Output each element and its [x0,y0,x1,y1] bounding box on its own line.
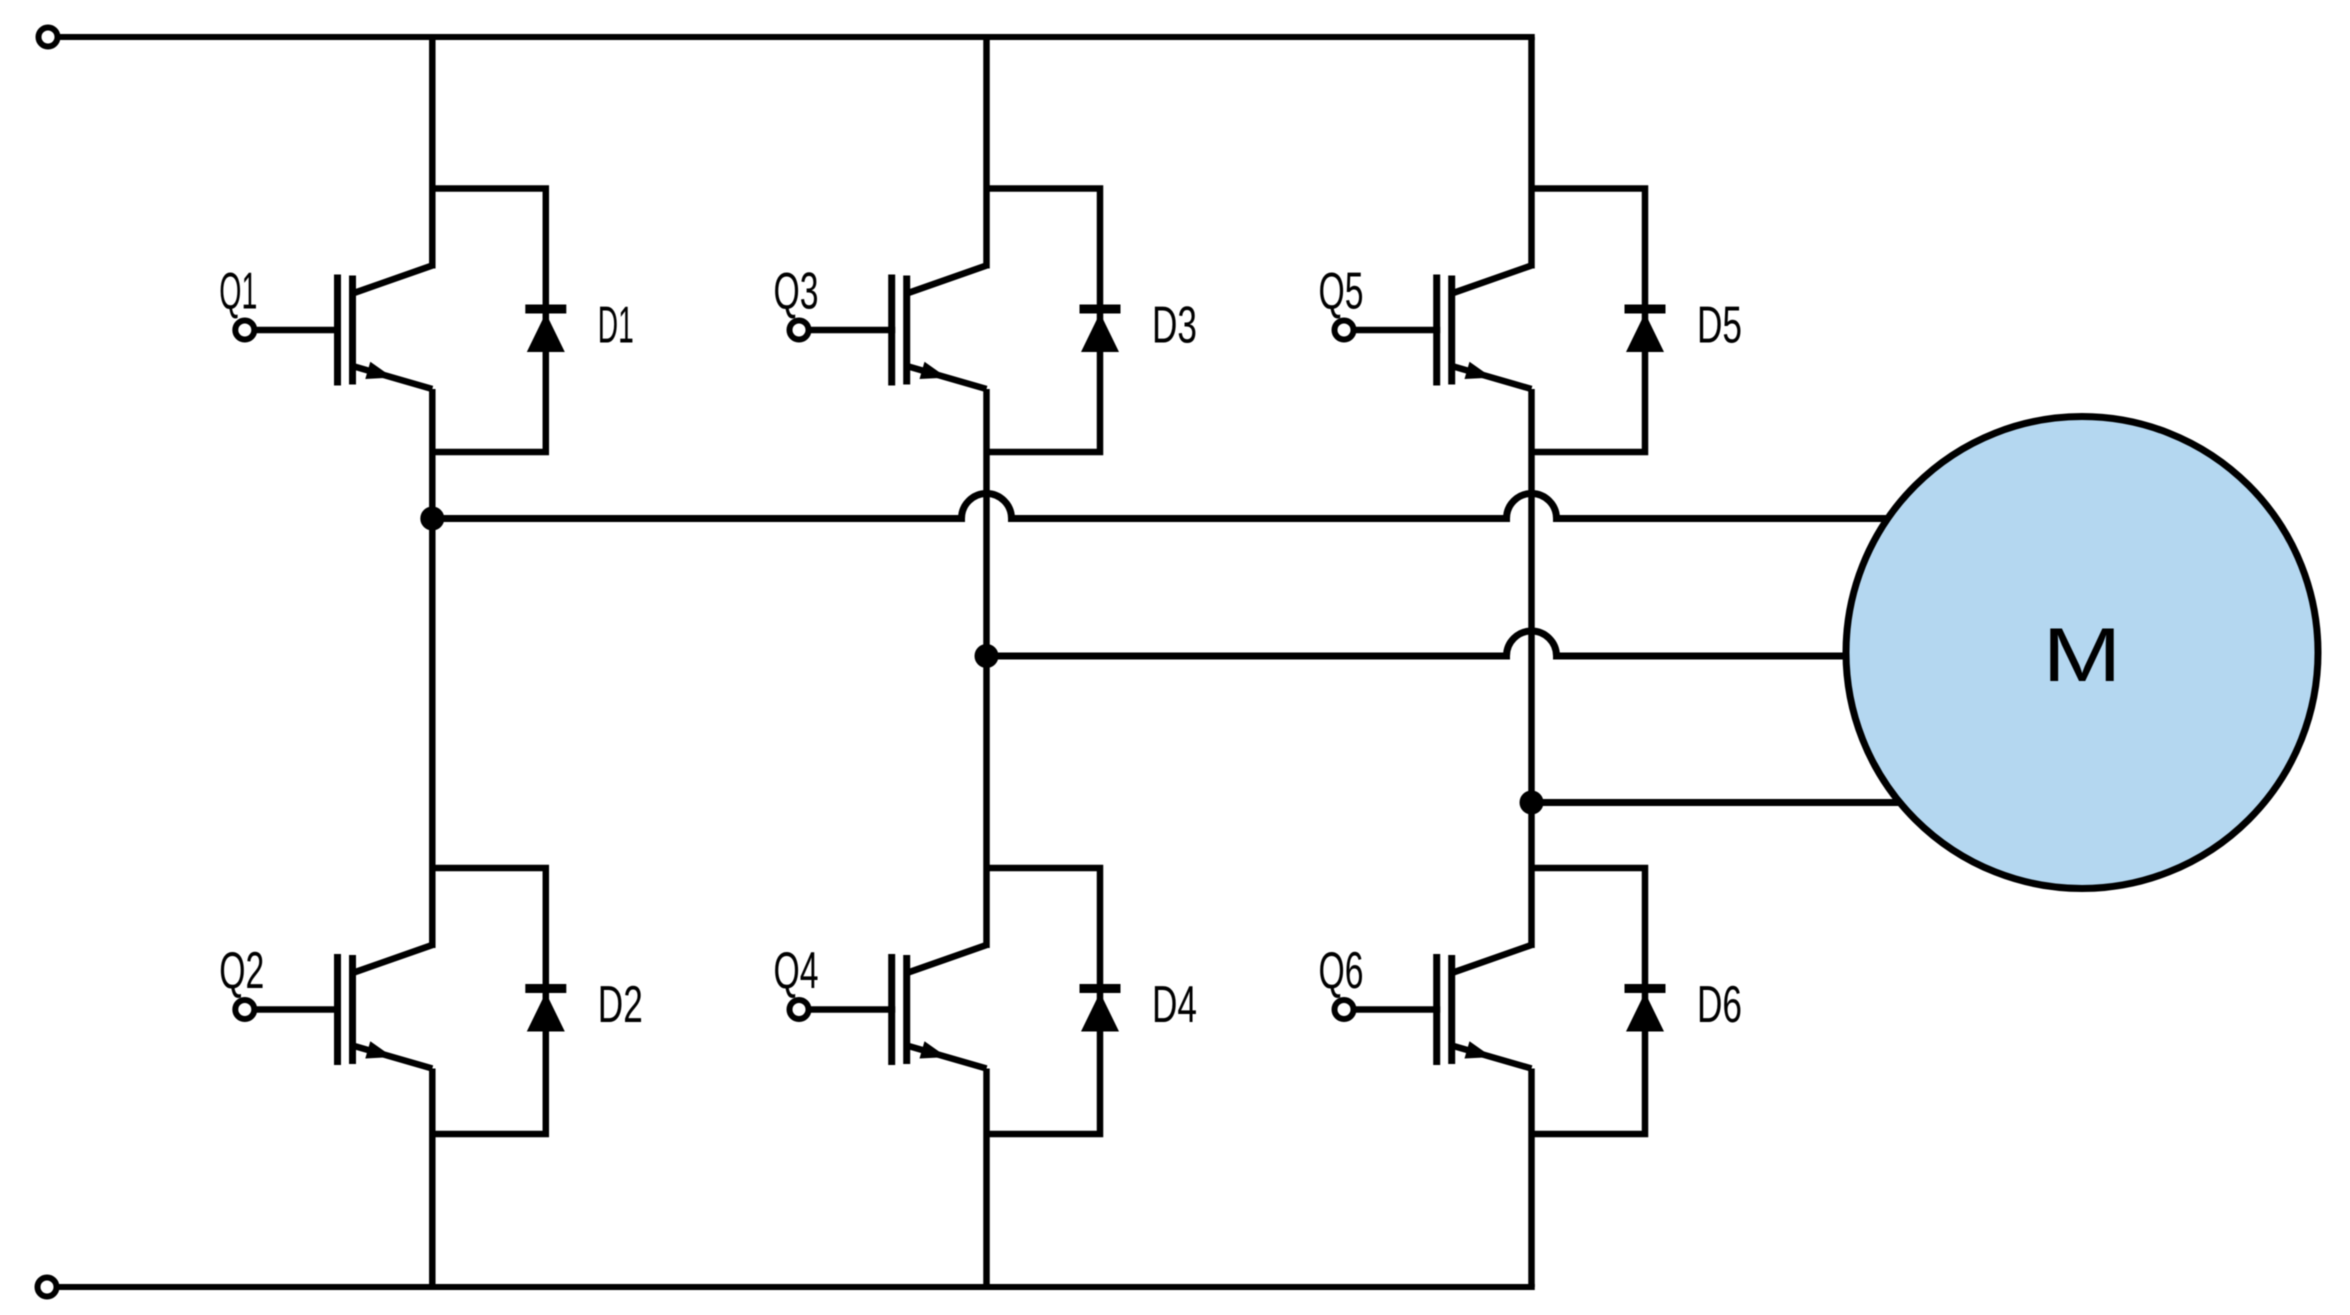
svg-text:D6: D6 [1697,976,1742,1034]
svg-text:Q2: Q2 [219,942,264,1000]
svg-text:D5: D5 [1697,297,1742,355]
svg-text:Q5: Q5 [1319,263,1364,321]
svg-text:D1: D1 [598,297,634,355]
svg-text:Q4: Q4 [774,942,819,1000]
svg-text:Q3: Q3 [774,263,819,321]
svg-text:Q6: Q6 [1319,942,1364,1000]
svg-text:D3: D3 [1152,297,1197,355]
svg-text:D2: D2 [598,976,643,1034]
svg-text:Q1: Q1 [219,263,257,321]
svg-text:D4: D4 [1152,976,1197,1034]
svg-text:M: M [2043,613,2122,698]
